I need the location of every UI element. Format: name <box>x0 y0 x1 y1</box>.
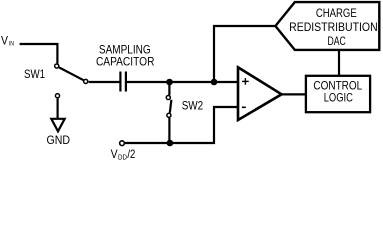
capacitor C sampling plates <box>120 72 126 92</box>
wire capacitor to comparator + input <box>127 81 238 83</box>
junction node A capacitor/SW2 <box>166 79 173 86</box>
wire comparator output to control logic <box>281 93 306 95</box>
wire SW1 to sampling capacitor <box>89 81 120 83</box>
svg-text:GND: GND <box>47 133 71 147</box>
svg-text:CAPACITOR: CAPACITOR <box>96 55 155 69</box>
wire SW2 bottom contact to bottom rail <box>168 118 170 143</box>
wire VIN to SW1 pivot <box>20 44 58 64</box>
switch SW1 pivot contact <box>55 64 59 68</box>
switch SW2 top contact <box>166 95 170 99</box>
svg-text:IN: IN <box>9 41 14 48</box>
svg-text:DAC: DAC <box>327 34 346 48</box>
switch SW1 ground contact <box>55 94 59 98</box>
svg-text:V: V <box>1 34 8 48</box>
switch SW2 bottom contact <box>167 113 171 117</box>
wire VDD/2 rail to comparator - input <box>125 107 238 143</box>
label SAMPLING CAPACITOR <box>96 43 155 69</box>
label CONTROL LOGIC <box>313 79 362 105</box>
junction node C rail/SW2 <box>167 140 174 147</box>
terminal VDD/2 <box>120 141 125 146</box>
svg-text:V: V <box>111 147 118 161</box>
comparator U1 <box>238 67 282 120</box>
comparator - pin label <box>242 106 246 108</box>
control logic box U2 <box>306 76 370 112</box>
svg-text:CHARGE: CHARGE <box>316 6 357 20</box>
junction node B DAC tap <box>211 79 218 86</box>
wire node A to SW2 top contact <box>168 82 170 95</box>
wire node B to DAC input <box>214 26 276 82</box>
DAC U3 charge redistribution <box>275 2 379 50</box>
wire DAC to control logic <box>338 50 340 76</box>
ground GND symbol <box>51 119 64 132</box>
label VDD/2 <box>111 147 136 162</box>
svg-text:/2: /2 <box>127 147 135 161</box>
switch SW1 lever <box>59 67 84 80</box>
wire SW1 ground contact to GND <box>56 98 58 119</box>
svg-text:SW1: SW1 <box>24 67 45 81</box>
switch SW1 output contact <box>84 79 88 83</box>
label CHARGE REDISTRIBUTION DAC <box>289 6 378 48</box>
svg-text:SW2: SW2 <box>182 99 204 113</box>
comparator + pin label <box>242 78 249 85</box>
node VIN label <box>1 34 14 48</box>
svg-text:LOGIC: LOGIC <box>324 91 353 105</box>
svg-text:DD: DD <box>118 155 127 162</box>
switch SW2 lever <box>170 100 172 113</box>
svg-text:REDISTRIBUTION: REDISTRIBUTION <box>289 20 378 34</box>
